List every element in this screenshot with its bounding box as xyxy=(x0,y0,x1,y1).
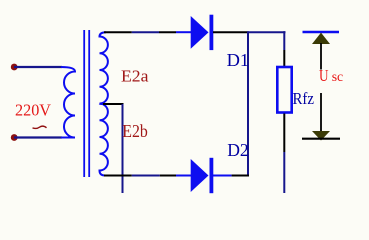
svg-text:U: U xyxy=(319,66,329,85)
svg-text:Rfz: Rfz xyxy=(293,89,315,108)
svg-text:220V: 220V xyxy=(15,101,52,120)
svg-text:D1: D1 xyxy=(227,50,250,70)
svg-text:D2: D2 xyxy=(227,140,249,160)
svg-text:E2b: E2b xyxy=(122,121,148,141)
svg-text:sc: sc xyxy=(332,70,344,85)
svg-text:E2a: E2a xyxy=(121,67,149,86)
